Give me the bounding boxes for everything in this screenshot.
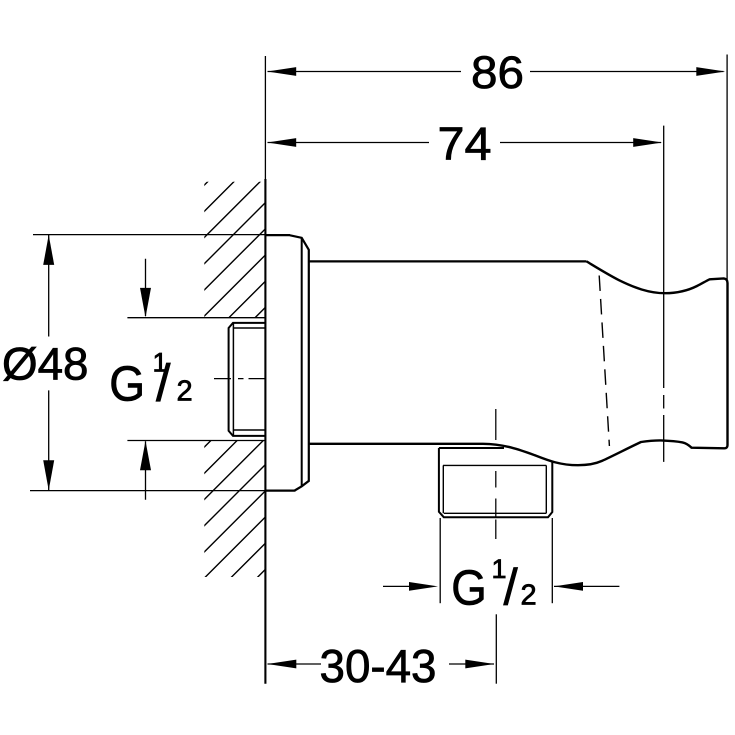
svg-text:86: 86 <box>471 47 524 98</box>
svg-text:/: / <box>156 354 171 412</box>
svg-text:2: 2 <box>521 580 537 612</box>
svg-text:Ø48: Ø48 <box>2 339 89 390</box>
svg-text:74: 74 <box>438 118 492 170</box>
svg-text:G: G <box>451 560 487 615</box>
svg-text:30-43: 30-43 <box>320 640 437 692</box>
svg-text:G: G <box>109 356 145 411</box>
svg-text:/: / <box>504 559 519 616</box>
svg-text:2: 2 <box>177 375 193 407</box>
